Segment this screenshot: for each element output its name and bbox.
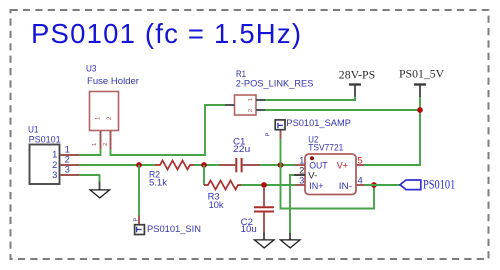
port PS0101	[400, 178, 455, 192]
wire fuse pin2 to R1 left	[111, 105, 226, 155]
svg-text:3: 3	[65, 164, 70, 175]
svg-text:PS0101: PS0101	[29, 133, 61, 144]
U1 pin 2	[52, 153, 79, 170]
svg-text:Fuse Holder: Fuse Holder	[87, 75, 139, 86]
svg-text:3: 3	[299, 174, 304, 185]
svg-text:TSV7721: TSV7721	[308, 142, 343, 153]
fuse holder U3	[86, 62, 139, 130]
svg-text:PS0101 (fc = 1.5Hz): PS0101 (fc = 1.5Hz)	[31, 18, 301, 49]
U2 pin 5 V+	[337, 154, 364, 170]
svg-text:22u: 22u	[233, 143, 250, 154]
connector U1	[28, 123, 61, 184]
capacitor C1	[219, 135, 260, 172]
U3 pin 2	[103, 116, 113, 149]
svg-text:1: 1	[92, 143, 98, 146]
svg-text:4: 4	[358, 174, 363, 185]
svg-text:U3: U3	[86, 62, 97, 73]
ground under C2	[254, 232, 274, 248]
test point PS0101_SIN	[133, 165, 201, 235]
svg-text:10u: 10u	[241, 223, 257, 234]
svg-text:PS0101_SAMP: PS0101_SAMP	[286, 117, 351, 128]
svg-text:PS0101: PS0101	[423, 178, 455, 192]
svg-text:1: 1	[248, 98, 254, 101]
junction C2 node	[261, 182, 267, 188]
U1 pin 1	[52, 143, 79, 159]
resistor R2	[149, 161, 194, 188]
U3 pin 1	[92, 116, 102, 149]
wire PS01_5V down to op-amp V+	[364, 97, 420, 165]
junction PS01_5V	[417, 107, 423, 113]
wire R3 to op-amp pin3	[241, 184, 295, 186]
power port PS01_5V	[399, 68, 445, 98]
wire R3 branch down	[203, 165, 205, 185]
svg-text:2: 2	[103, 143, 109, 146]
svg-text:28V-PS: 28V-PS	[339, 69, 375, 82]
svg-text:P: P	[265, 133, 271, 137]
junction R2 left / PS0101_SIN	[136, 162, 142, 168]
wire U1 pin2 main net	[79, 164, 155, 166]
svg-text:5.1k: 5.1k	[149, 177, 167, 188]
svg-text:V-: V-	[308, 170, 317, 181]
ground under V-	[280, 233, 300, 248]
svg-text:2: 2	[248, 109, 254, 112]
svg-text:2-POS_LINK_RES: 2-POS_LINK_RES	[236, 78, 314, 89]
svg-text:5: 5	[358, 154, 363, 165]
U2 pin 4 IN-	[339, 174, 364, 191]
feedback wire OUT to IN-	[281, 165, 375, 209]
svg-text:10k: 10k	[209, 199, 224, 210]
junction IN- node	[371, 182, 377, 188]
wire R1 pin2 to PS01_5V junction	[265, 109, 420, 111]
svg-text:3: 3	[52, 169, 57, 180]
ground under U1 pin3	[90, 182, 110, 198]
wire R2 to C1	[194, 164, 219, 166]
junction OUT node	[278, 162, 284, 168]
U1 pin 3	[52, 164, 79, 181]
resistor R1 (2-POS_LINK_RES)	[225, 68, 313, 115]
wire U1 pin3 to ground	[79, 175, 100, 182]
U2 pin 3 IN+	[295, 174, 324, 191]
capacitor C2	[241, 187, 274, 234]
svg-text:PS01_5V: PS01_5V	[399, 68, 445, 81]
svg-text:P: P	[133, 218, 139, 222]
svg-text:IN+: IN+	[309, 180, 324, 191]
test point PS0101_SAMP	[265, 117, 351, 165]
U2 pin 1 OUT	[295, 154, 328, 170]
resistor R3	[204, 181, 241, 210]
op-amp U2 TSV7721	[305, 134, 356, 195]
wire R1 pin1 to 28V-PS	[265, 97, 355, 101]
svg-text:V+: V+	[337, 159, 349, 170]
junction R2 right / R3 branch	[201, 162, 207, 168]
wire C1 to op-amp pin1	[260, 164, 295, 166]
power port 28V-PS	[339, 69, 375, 97]
svg-text:IN-: IN-	[339, 180, 352, 191]
svg-text:PS0101_SIN: PS0101_SIN	[147, 223, 201, 234]
wire U1 pin1 to fuse pin1	[79, 149, 101, 155]
U2 pin 2 V-	[294, 164, 317, 180]
wire IN- to port	[364, 184, 400, 186]
wire V- to ground	[290, 175, 294, 233]
